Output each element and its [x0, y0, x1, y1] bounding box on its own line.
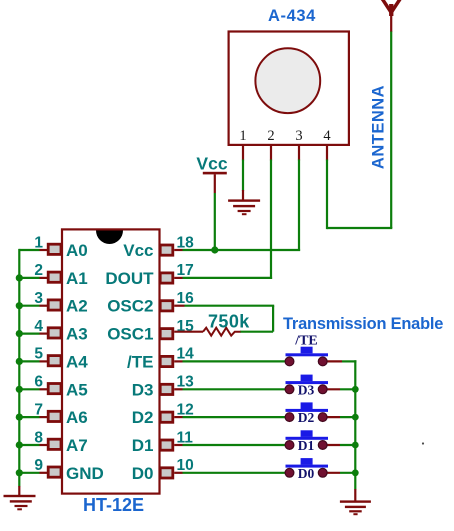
pin 16 wire — [174, 305, 184, 307]
svg-text:17: 17 — [177, 262, 194, 279]
pin 2 wire — [40, 277, 48, 279]
pin 10 pad — [160, 468, 173, 478]
resistor R1 750k — [203, 328, 241, 336]
svg-text:18: 18 — [177, 234, 195, 251]
svg-text:D2: D2 — [132, 408, 154, 427]
pin 8 pad — [48, 439, 61, 449]
svg-text:D3: D3 — [298, 382, 315, 397]
svg-text:DOUT: DOUT — [105, 269, 154, 288]
power Vcc stem — [214, 174, 216, 193]
ground under module pin1 — [228, 190, 260, 215]
wire antenna horizontal — [327, 227, 392, 229]
junction pin 9 bus — [16, 469, 23, 476]
pin 14 pad — [160, 356, 173, 366]
pin 13 wire — [174, 388, 182, 390]
svg-text:11: 11 — [177, 429, 194, 446]
svg-text:OSC1: OSC1 — [107, 325, 153, 344]
module U2 A-434 body — [229, 32, 349, 145]
junction pin 5 bus — [16, 358, 23, 365]
pin 11 wire — [174, 444, 182, 446]
junction pin 3 bus — [16, 302, 23, 309]
pin 12 wire — [174, 416, 182, 418]
svg-text:9: 9 — [34, 457, 43, 474]
pin 4 pad — [48, 328, 61, 338]
pin 7 wire — [40, 416, 48, 418]
wire left bus — [18, 249, 20, 487]
svg-text:3: 3 — [34, 290, 43, 307]
pin 5 wire — [40, 360, 48, 362]
power Vcc bar — [203, 172, 227, 175]
module pin 1 stub — [242, 145, 244, 161]
svg-text:1: 1 — [239, 128, 246, 144]
switch SW5 D0 — [285, 458, 356, 481]
svg-text:/TE: /TE — [294, 334, 318, 349]
svg-text:13: 13 — [177, 374, 195, 391]
svg-text:D1: D1 — [298, 438, 315, 453]
svg-text:1: 1 — [34, 234, 43, 251]
svg-text:A-434: A-434 — [268, 7, 316, 25]
svg-text:A1: A1 — [66, 269, 88, 288]
svg-text:A4: A4 — [66, 352, 88, 371]
pin 8 wire — [40, 444, 48, 446]
pin 6 pad — [48, 384, 61, 394]
svg-text:12: 12 — [177, 401, 194, 418]
svg-text:2: 2 — [267, 128, 274, 144]
antenna AE1 — [381, 0, 401, 32]
pin 9 wire — [40, 472, 48, 474]
wire OSC2 loop vertical — [272, 306, 274, 332]
ground left — [4, 486, 36, 510]
switch SW3 D2 — [285, 402, 356, 425]
svg-text:/TE: /TE — [127, 352, 153, 371]
junction pin 2 bus — [16, 274, 23, 281]
pin 5 pad — [48, 356, 61, 366]
module pin 3 stub — [298, 145, 300, 161]
junction pin 4 bus — [16, 330, 23, 337]
pin 13 pad — [160, 384, 173, 394]
junction D3 bus — [352, 386, 359, 393]
pin 6 wire — [40, 388, 48, 390]
pin 14 wire — [174, 360, 182, 362]
wire OSC2 loop horizontal — [240, 331, 273, 333]
pin 15 pad — [160, 329, 173, 339]
svg-text:2: 2 — [34, 262, 43, 279]
svg-text:7: 7 — [34, 401, 43, 418]
svg-text:4: 4 — [34, 318, 43, 335]
wire module pin2 down — [270, 160, 272, 280]
pin 3 wire — [40, 305, 48, 307]
svg-text:ANTENNA: ANTENNA — [370, 85, 388, 169]
switch SW1 /TE — [285, 334, 356, 366]
pin 16 pad — [160, 301, 173, 311]
svg-text:5: 5 — [34, 346, 43, 363]
svg-text:A2: A2 — [66, 297, 88, 316]
module circle — [255, 48, 320, 113]
ground right — [340, 489, 371, 515]
module pin 4 stub — [326, 145, 328, 161]
junction pin 8 bus — [16, 441, 23, 448]
svg-text:A7: A7 — [66, 436, 88, 455]
svg-text:10: 10 — [177, 457, 194, 474]
svg-text:Vcc: Vcc — [196, 154, 227, 174]
svg-text:A3: A3 — [66, 325, 88, 344]
svg-text:Transmission Enable: Transmission Enable — [283, 315, 443, 333]
svg-text:HT-12E: HT-12E — [83, 495, 144, 515]
svg-text:OSC2: OSC2 — [107, 297, 153, 316]
pin 2 pad — [48, 272, 61, 282]
wire module pin4 down — [326, 160, 328, 230]
pin 17 pad — [160, 273, 173, 283]
svg-text:GND: GND — [66, 464, 104, 483]
junction pin 7 bus — [16, 414, 23, 421]
pin 11 pad — [160, 440, 173, 450]
svg-text:D3: D3 — [132, 380, 154, 399]
svg-text:A5: A5 — [66, 380, 88, 399]
svg-text:16: 16 — [177, 290, 195, 307]
IC notch — [96, 231, 123, 245]
pin 9 pad — [48, 467, 61, 477]
pin 4 wire — [40, 333, 48, 335]
switch SW2 D3 — [285, 375, 356, 398]
svg-text:D0: D0 — [298, 466, 315, 481]
svg-text:D2: D2 — [298, 410, 315, 425]
pin 7 pad — [48, 411, 61, 421]
junction Vcc/pin18 — [211, 246, 218, 253]
pin 3 pad — [48, 300, 61, 310]
svg-text:6: 6 — [34, 374, 43, 391]
svg-text:3: 3 — [295, 128, 302, 144]
pin 18 wire — [174, 249, 182, 251]
wire antenna vertical — [390, 32, 392, 229]
pin 1 pad — [48, 244, 61, 254]
svg-text:4: 4 — [323, 128, 331, 144]
junction D0 bus — [352, 469, 359, 476]
svg-text:14: 14 — [177, 346, 195, 363]
svg-text:750k: 750k — [208, 311, 250, 331]
IC U1 HT-12E body — [62, 229, 160, 493]
junction pin 6 bus — [16, 386, 23, 393]
wire module pin1 down — [242, 160, 244, 192]
svg-text:D1: D1 — [132, 436, 154, 455]
module pin 2 stub — [270, 145, 272, 161]
pin 15 wire / resistor lead — [174, 331, 203, 333]
svg-text:D0: D0 — [132, 464, 154, 483]
pin 18 pad — [160, 245, 173, 255]
switch SW4 D1 — [285, 430, 356, 453]
wire Vcc down — [214, 193, 216, 250]
svg-text:Vcc: Vcc — [123, 241, 153, 260]
pin 12 pad — [160, 412, 173, 422]
pin 1 wire — [40, 249, 48, 251]
svg-text:A6: A6 — [66, 408, 88, 427]
wire module pin3 down — [298, 160, 300, 252]
junction D2 bus — [352, 414, 359, 421]
pin 17 wire — [174, 277, 182, 279]
svg-text:A0: A0 — [66, 241, 88, 260]
junction D1 bus — [352, 442, 359, 449]
svg-text:8: 8 — [34, 429, 43, 446]
wire right bus — [354, 360, 356, 489]
stray mark — [422, 442, 424, 444]
pin 10 wire — [174, 472, 182, 474]
